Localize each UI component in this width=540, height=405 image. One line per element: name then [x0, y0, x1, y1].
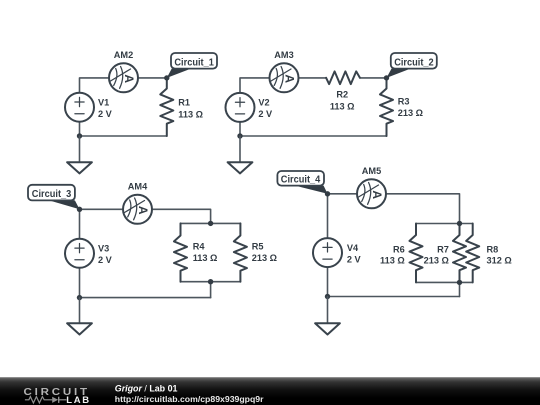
- logo mini schematic wire with resistor and diode: [25, 397, 67, 403]
- ground G4: [315, 297, 340, 335]
- voltage source V3: [65, 239, 113, 268]
- resistor R1: [160, 78, 203, 136]
- svg-text:V2: V2: [258, 97, 269, 107]
- wire bottom rail C4: [328, 296, 460, 298]
- resistor R2: [326, 71, 360, 111]
- wire bank top rail C3: [181, 222, 241, 224]
- resistor R4: [174, 223, 217, 281]
- wire R2 to node Circuit_2: [360, 77, 387, 79]
- svg-text:R4: R4: [193, 242, 206, 252]
- svg-text:113 Ω: 113 Ω: [193, 253, 218, 263]
- junction dot V4 bottom: [325, 294, 330, 299]
- ammeter AM3: [270, 50, 299, 92]
- node Circuit_2 flag: [387, 53, 437, 78]
- resistor R3: [380, 78, 423, 136]
- ammeter AM2: [109, 50, 138, 92]
- svg-text:113 Ω: 113 Ω: [380, 255, 405, 265]
- wire bank bottom rail C4: [416, 281, 473, 283]
- junction dot node Circuit_1: [164, 75, 169, 80]
- voltage source V2: [226, 93, 274, 122]
- wire AM2 to node Circuit_1: [138, 77, 167, 79]
- svg-text:V3: V3: [98, 244, 109, 254]
- node Circuit_1 flag: [167, 53, 217, 78]
- svg-text:R2: R2: [336, 90, 348, 100]
- svg-text:A: A: [136, 206, 150, 215]
- svg-text:2 V: 2 V: [98, 109, 113, 119]
- svg-text:A: A: [282, 74, 296, 83]
- svg-text:R3: R3: [398, 97, 410, 107]
- svg-text:2 V: 2 V: [258, 109, 273, 119]
- svg-text:Circuit_1: Circuit_1: [174, 57, 214, 68]
- junction dot V1 bottom: [77, 133, 82, 138]
- junction dot V3 bottom: [77, 295, 82, 300]
- svg-text:R8: R8: [487, 244, 499, 254]
- resistor R7: [424, 224, 466, 283]
- junction dot bank top C4: [457, 221, 462, 226]
- wire node Circuit_3 to AM4: [80, 208, 124, 210]
- wire V1 bottom to rail: [79, 122, 81, 136]
- wire V4 bottom to rail: [327, 267, 329, 297]
- wire node to V4 top: [327, 194, 329, 238]
- svg-text:113 Ω: 113 Ω: [178, 109, 203, 119]
- svg-text:LAB: LAB: [66, 395, 91, 405]
- wire V3 bottom to rail: [79, 268, 81, 298]
- svg-text:AM2: AM2: [114, 50, 133, 60]
- svg-text:A: A: [370, 190, 384, 199]
- svg-text:AM3: AM3: [274, 50, 293, 60]
- wire bank bottom to rail: [210, 282, 212, 298]
- svg-text:R6: R6: [393, 244, 405, 254]
- junction dot bank bottom C3: [208, 279, 213, 284]
- svg-text:R5: R5: [252, 242, 264, 252]
- wire V2 top to AM3: [240, 78, 269, 93]
- node Circuit_4 flag: [277, 171, 327, 194]
- svg-text:2 V: 2 V: [98, 255, 113, 265]
- resistor R8: [466, 224, 512, 283]
- junction dot node Circuit_4: [325, 191, 330, 196]
- svg-text:213 Ω: 213 Ω: [398, 108, 423, 118]
- wire node Circuit_4 to AM5: [328, 193, 358, 195]
- wire AM3 to R2: [299, 77, 326, 79]
- wire node to V3 top: [79, 209, 81, 239]
- svg-text:Circuit_4: Circuit_4: [281, 174, 321, 185]
- svg-text:Grigor / Lab 01: Grigor / Lab 01: [115, 383, 178, 393]
- wire bottom rail C3: [80, 297, 211, 299]
- svg-text:Circuit_2: Circuit_2: [394, 57, 434, 68]
- svg-text:AM5: AM5: [362, 166, 381, 176]
- svg-text:Circuit_3: Circuit_3: [32, 189, 72, 200]
- wire bank bottom to rail: [459, 282, 461, 296]
- junction dot node Circuit_3: [77, 207, 82, 212]
- junction dot bank bottom C4: [457, 280, 462, 285]
- wire bank top rail C4: [416, 223, 473, 225]
- ammeter AM5: [357, 166, 386, 208]
- junction dot bank top C3: [208, 221, 213, 226]
- ground G2: [228, 136, 253, 173]
- ground G1: [67, 136, 92, 173]
- wire V1 top to AM2: [80, 78, 110, 93]
- voltage source V1: [65, 93, 113, 122]
- svg-text:V4: V4: [347, 243, 359, 253]
- svg-text:213 Ω: 213 Ω: [424, 255, 449, 265]
- svg-text:AM4: AM4: [128, 181, 148, 191]
- resistor R6: [380, 224, 422, 283]
- node Circuit_3 flag: [28, 185, 80, 210]
- ammeter AM4: [123, 181, 152, 224]
- wire bottom rail C1: [80, 135, 167, 137]
- svg-text:R1: R1: [178, 98, 190, 108]
- wire bank bottom rail C3: [181, 281, 241, 283]
- svg-text:V1: V1: [98, 97, 109, 107]
- wire AM5 to bank top: [386, 194, 459, 224]
- wire bottom rail C2: [240, 135, 387, 137]
- svg-text:http://circuitlab.com/cp89x939: http://circuitlab.com/cp89x939gpq9r: [115, 394, 264, 404]
- junction dot V2 bottom: [237, 133, 242, 138]
- svg-text:R7: R7: [437, 244, 449, 254]
- voltage source V4: [313, 238, 362, 267]
- wire AM4 to bank top: [152, 209, 211, 223]
- svg-text:312 Ω: 312 Ω: [487, 255, 512, 265]
- svg-text:213 Ω: 213 Ω: [252, 253, 277, 263]
- ground G3: [67, 298, 92, 335]
- CircuitLab logo text: [24, 387, 90, 398]
- svg-text:A: A: [122, 74, 136, 83]
- wire V2 bottom to rail: [239, 122, 241, 136]
- svg-text:113 Ω: 113 Ω: [330, 101, 355, 111]
- resistor R5: [234, 223, 277, 281]
- junction dot node Circuit_2: [384, 75, 389, 80]
- svg-text:2 V: 2 V: [347, 255, 362, 265]
